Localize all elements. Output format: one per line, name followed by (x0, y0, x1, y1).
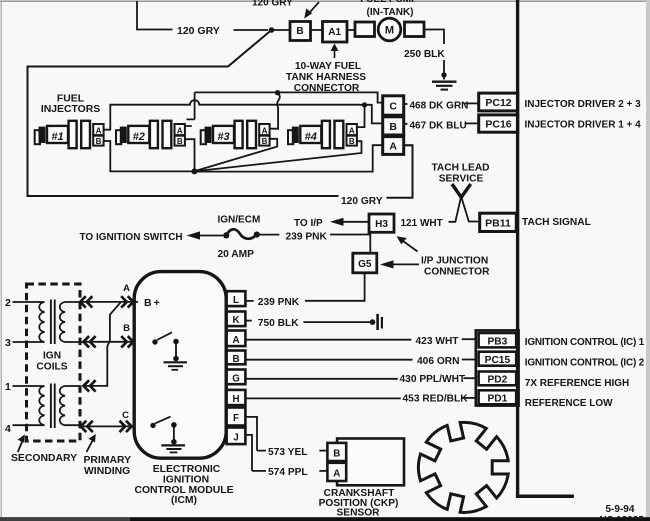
svg-text:7X REFERENCE HIGH: 7X REFERENCE HIGH (525, 378, 629, 389)
svg-text:(ICM): (ICM) (171, 495, 197, 506)
reluctor wheel (7-slot) (418, 422, 508, 512)
switch (upper) inside ICM (152, 339, 157, 344)
wire 750 BLK from pin K (246, 320, 252, 322)
ground (lower switch) (161, 445, 185, 452)
ignition coil T1 secondary (13, 302, 45, 342)
svg-text:B: B (349, 137, 355, 146)
wire G5 down to 239 PNK row (305, 273, 365, 301)
svg-text:#3: #3 (217, 131, 229, 143)
wire row C coil to ICM switch (83, 425, 151, 427)
svg-text:PC15: PC15 (485, 355, 511, 366)
scan edge band right (646, 0, 650, 521)
svg-text:A: A (123, 283, 130, 294)
wire 467 net down to injector 4 pin A (357, 105, 365, 127)
svg-text:#2: #2 (133, 131, 145, 143)
svg-text:M: M (385, 25, 394, 37)
connector chevrons row A left (80, 296, 92, 307)
wire row A inside ICM (134, 301, 138, 303)
svg-text:B: B (262, 137, 268, 146)
ICM pin F (227, 408, 246, 426)
svg-text:#1: #1 (51, 131, 63, 143)
ICM pin L (227, 291, 246, 306)
wire A1 to pump (347, 29, 356, 31)
injector #4 (288, 121, 357, 148)
svg-text:PB3: PB3 (487, 337, 507, 348)
svg-text:430 PPL/WHT: 430 PPL/WHT (400, 374, 466, 385)
svg-text:B: B (389, 121, 397, 133)
svg-text:TO IGNITION SWITCH: TO IGNITION SWITCH (80, 232, 183, 243)
op-amp U1: ICM body (134, 272, 226, 459)
connector chevrons row B left (84, 336, 96, 347)
svg-text:468 DK GRN: 468 DK GRN (410, 100, 469, 111)
svg-text:CRANKSHAFT: CRANKSHAFT (324, 488, 396, 499)
wire 430 PPL/WHT from pin G (246, 378, 398, 380)
wire 120 GRY feed from top (137, 1, 173, 30)
wire 120 GRY to junction (234, 29, 269, 31)
svg-text:TACH SIGNAL: TACH SIGNAL (522, 217, 591, 228)
wire 250 BLK to ground (443, 60, 445, 80)
net 468 DK GRN: wire to pin C (195, 92, 383, 102)
svg-text:REFERENCE LOW: REFERENCE LOW (525, 398, 613, 409)
wire 468 net to injector 3 pin A (hop over 467) (270, 93, 279, 129)
ignition coil T2 core (51, 384, 55, 429)
svg-text:121 WHT: 121 WHT (401, 218, 443, 229)
fuse 20 AMP (223, 232, 229, 238)
connector pin A1 (fuel pump) (323, 22, 348, 43)
connector PD2 (479, 372, 517, 386)
svg-text:PC12: PC12 (485, 97, 511, 109)
ground (fuel pump) (432, 82, 457, 90)
wire 468 net down to injector 2 pin A (185, 92, 194, 126)
ignition coil T1 core (51, 300, 55, 345)
svg-text:PD1: PD1 (487, 394, 507, 405)
svg-text:A: A (232, 335, 239, 346)
svg-text:B +: B + (144, 297, 160, 309)
svg-text:G5: G5 (358, 259, 372, 270)
svg-text:PB11: PB11 (485, 218, 511, 230)
wire row B coil to ICM switch (83, 341, 153, 343)
svg-text:(IN-TANK): (IN-TANK) (366, 7, 413, 18)
svg-text:PRIMARY: PRIMARY (84, 455, 132, 466)
connector PC16 (479, 115, 518, 132)
svg-text:INJECTOR DRIVER 2 + 3: INJECTOR DRIVER 2 + 3 (525, 99, 642, 110)
wire row A coil to ICM (80, 301, 138, 303)
wire 573 YEL from pin F (246, 417, 266, 451)
svg-text:H3: H3 (375, 219, 388, 230)
svg-text:B: B (177, 137, 183, 146)
wire 239 PNK to pin L (246, 300, 254, 302)
svg-text:F: F (233, 413, 239, 424)
ignition coil T1 primary (60, 302, 83, 342)
wire coil 1 up to row A (83, 302, 121, 386)
svg-text:B: B (296, 26, 303, 37)
connector chevrons row A right (121, 296, 133, 307)
ground (750 BLK) (376, 314, 379, 330)
svg-text:750 BLK: 750 BLK (258, 318, 299, 329)
wire 453 RED/BLK from pin H (246, 397, 401, 399)
ICM pin H (227, 390, 246, 405)
wire 423 WHT from pin A (246, 339, 411, 341)
injector #3 (201, 121, 270, 148)
svg-text:COILS: COILS (36, 362, 67, 373)
svg-text:L: L (233, 295, 239, 306)
wire supply to injector 2 pin B (185, 139, 194, 169)
svg-text:120 GRY: 120 GRY (177, 25, 220, 37)
ignition coil T2 primary (60, 386, 83, 425)
svg-text:INJECTOR DRIVER 1 + 4: INJECTOR DRIVER 1 + 4 (525, 119, 642, 130)
svg-text:SENSOR: SENSOR (336, 508, 380, 519)
svg-text:239 PNK: 239 PNK (286, 232, 328, 243)
connector H3 (369, 214, 394, 232)
wire H3 down to G5 (369, 232, 371, 253)
ignition coil T2 secondary (13, 386, 45, 425)
connector chevrons row 1 left (84, 380, 96, 391)
wire 574 PPL from pin J (246, 435, 266, 471)
svg-text:467 DK BLU: 467 DK BLU (410, 121, 467, 132)
ICM pin K (227, 312, 246, 327)
svg-text:H: H (232, 394, 239, 405)
svg-text:NS 13025: NS 13025 (600, 515, 645, 521)
connector pin B (CKP) (327, 443, 346, 461)
connector pins C B A (10-way) (383, 96, 404, 115)
ICM pin A (227, 331, 246, 347)
svg-text:A1: A1 (328, 27, 341, 38)
svg-text:B: B (123, 323, 130, 334)
svg-text:406 ORN: 406 ORN (417, 356, 459, 367)
svg-text:1: 1 (5, 381, 11, 393)
wire 250 BLK (424, 30, 444, 45)
tach lead service tap symbol (452, 184, 471, 199)
svg-text:423 WHT: 423 WHT (416, 336, 460, 347)
svg-text:TANK HARNESS: TANK HARNESS (286, 72, 366, 83)
svg-text:2: 2 (5, 297, 11, 309)
connector pin B (fuel pump) (290, 22, 311, 41)
wire junction to pin B (272, 29, 291, 31)
svg-text:SERVICE: SERVICE (439, 174, 484, 185)
wire supply to injector 4 pin B (197, 141, 362, 171)
connector chevrons row C right (120, 421, 132, 432)
svg-text:574 PPL: 574 PPL (268, 467, 308, 478)
svg-text:A: A (177, 126, 183, 135)
svg-text:IGN/ECM: IGN/ECM (218, 215, 261, 226)
svg-text:B: B (333, 449, 340, 460)
sensor CKP body (337, 439, 404, 486)
svg-text:C: C (389, 101, 397, 113)
svg-text:CONNECTOR: CONNECTOR (424, 267, 490, 278)
svg-text:10-WAY FUEL: 10-WAY FUEL (295, 61, 361, 72)
net 467 DK BLU: wire injector 1 pin A to pin B (hop at x194.6) (104, 100, 383, 130)
connector PC12 (479, 93, 518, 111)
arrow to pin A1 (334, 49, 336, 58)
fuel pump motor M (355, 22, 375, 37)
ground (upper switch) (164, 362, 188, 370)
svg-text:J: J (233, 432, 238, 443)
svg-text:I/P JUNCTION: I/P JUNCTION (421, 256, 488, 267)
svg-text:K: K (232, 315, 239, 326)
svg-text:#4: #4 (305, 131, 317, 143)
wire 467 DK BLU (404, 123, 408, 125)
svg-text:A: A (349, 126, 355, 135)
connector PD1 (479, 390, 517, 404)
wire 120 GRY loop (supply boundary) (28, 30, 339, 196)
border frame top (0, 0, 650, 2)
svg-text:INJECTORS: INJECTORS (41, 104, 100, 115)
svg-text:TO I/P: TO I/P (294, 218, 323, 229)
svg-text:120 GRY: 120 GRY (341, 196, 383, 207)
node junction 120 GRY (269, 27, 275, 33)
node on 467 net (362, 102, 367, 107)
svg-text:A: A (96, 126, 102, 135)
svg-text:250 BLK: 250 BLK (404, 49, 445, 60)
connector chevrons row C left (81, 421, 93, 432)
wire supply to injector 3 pin B (196, 139, 277, 171)
connector G5 (353, 253, 377, 273)
svg-text:IGN: IGN (43, 350, 61, 361)
svg-text:B: B (232, 354, 239, 365)
svg-text:B: B (96, 137, 102, 146)
svg-text:IGNITION CONTROL (IC) 1: IGNITION CONTROL (IC) 1 (525, 337, 645, 348)
svg-text:G: G (232, 373, 240, 384)
svg-text:C: C (122, 410, 129, 421)
svg-text:5-9-94: 5-9-94 (606, 504, 635, 515)
injector #1 (35, 121, 104, 148)
border frame left (0, 1, 2, 517)
svg-text:PC16: PC16 (485, 119, 511, 131)
node on 468 net (275, 90, 280, 95)
connector PB11 (480, 213, 517, 231)
svg-text:TACH LEAD: TACH LEAD (431, 163, 489, 174)
wire 468 DK GRN (404, 103, 408, 105)
wire 406 ORN from pin B (246, 359, 413, 361)
connector pin A (CKP) (327, 463, 346, 481)
svg-text:120 GRY: 120 GRY (252, 0, 293, 9)
connector block housing (476, 330, 519, 405)
wire ECM boundary line (516, 0, 519, 498)
svg-text:A: A (389, 141, 397, 153)
svg-text:IGNITION CONTROL (IC) 2: IGNITION CONTROL (IC) 2 (525, 357, 645, 368)
scan edge bar bottom (0, 517, 650, 521)
coil secondary housing (dashed) (27, 284, 81, 441)
wire supply node to pin A of 10-way (197, 145, 383, 171)
switch (lower) inside ICM (150, 423, 155, 428)
node ground dot (441, 72, 446, 77)
ICM pin B (227, 351, 246, 365)
ICM pin G (227, 370, 246, 385)
svg-text:3: 3 (5, 337, 11, 349)
wire H3 to I/P with arrow (340, 221, 369, 223)
svg-text:ELECTRONIC: ELECTRONIC (153, 464, 221, 475)
svg-text:20 AMP: 20 AMP (218, 249, 255, 260)
svg-text:WINDING: WINDING (84, 466, 130, 477)
connector PB3 (479, 333, 517, 347)
node 750 BLK ground (370, 319, 376, 325)
connector PC15 (479, 352, 517, 366)
net 120 GRY supply: injector 1 pin B to fan node (104, 141, 192, 171)
svg-text:IGNITION: IGNITION (163, 474, 209, 485)
ICM pin J (227, 428, 246, 445)
wire 121 WHT with tach service spike (449, 198, 480, 223)
svg-text:573 YEL: 573 YEL (268, 447, 307, 458)
arrow to H3 (403, 241, 418, 252)
svg-text:FUEL PUMP: FUEL PUMP (360, 0, 418, 5)
wire to ignition switch with arrow (199, 235, 224, 237)
svg-text:239 PNK: 239 PNK (258, 297, 300, 308)
svg-text:FUEL: FUEL (57, 94, 85, 105)
svg-text:A: A (333, 469, 340, 480)
connector chevrons row B right (121, 336, 133, 347)
wire B to A1 (311, 29, 323, 31)
node supply fan (191, 168, 197, 174)
wire 120 GRY right segment to pin A (387, 145, 413, 198)
arrow to pin B (308, 2, 320, 15)
svg-text:A: A (262, 126, 268, 135)
svg-text:PD2: PD2 (487, 375, 507, 386)
wire pin A right to 120 GRY loop (404, 144, 413, 146)
svg-text:SECONDARY: SECONDARY (11, 453, 77, 464)
svg-text:4: 4 (5, 423, 11, 435)
wire 239 PNK (fuse output) (257, 234, 280, 236)
injector #2 (116, 121, 185, 148)
svg-text:453 RED/BLK: 453 RED/BLK (403, 394, 469, 405)
arrow to G5 (390, 263, 419, 265)
